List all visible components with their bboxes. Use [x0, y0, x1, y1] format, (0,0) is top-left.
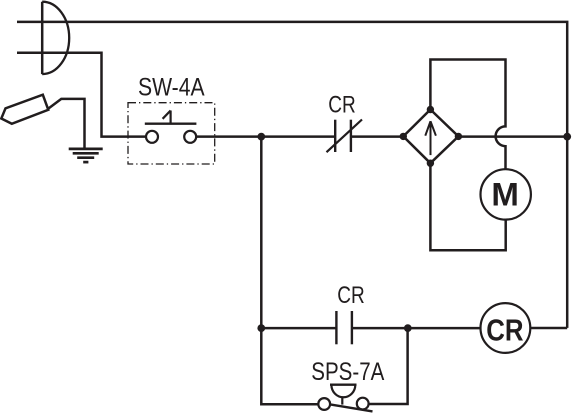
svg-text:CR: CR: [337, 282, 365, 309]
wire: node to relay coil: [408, 327, 481, 330]
rectifier BR1 (diamond with arrow): [400, 106, 463, 167]
node: junction dot on right rail: [563, 133, 571, 141]
relay coil CR circle: [481, 303, 531, 353]
wire: loop from diamond top over to motor with hop over main wire: [430, 60, 505, 170]
node: junction dot before relay coil: [404, 324, 412, 332]
svg-text:M: M: [491, 177, 519, 213]
pressure switch SPS-7A: [318, 385, 372, 412]
svg-text:SW-4A: SW-4A: [138, 73, 205, 101]
plug P1 (AC plug, half-ellipse): [42, 2, 69, 74]
switch SW-4A pushbutton: terminals, lever, actuator mark: [145, 111, 197, 143]
wire: relay coil to right rail: [530, 327, 567, 330]
node: junction dot after switch: [257, 133, 265, 141]
wire: probe cable to ground: [48, 99, 85, 148]
wire: NO contact to junction node: [352, 327, 408, 330]
wire: switch to junction node and on to NC contact: [196, 135, 335, 138]
wire: NC contact to rectifier diamond: [351, 135, 403, 138]
wire: diamond right vertex to right rail: [458, 135, 567, 138]
ground: [69, 149, 103, 162]
svg-text:CR: CR: [328, 92, 356, 119]
wire: from rung node down to pressure switch right terminal: [369, 328, 408, 404]
switch SW-4A dashed enclosure: [128, 103, 215, 164]
wire: motor bottom loop back to diamond bottom: [430, 163, 505, 250]
wire: rung from node to NO contact: [261, 327, 336, 330]
ground probe (test lead): [1, 95, 48, 124]
svg-text:CR: CR: [486, 312, 523, 347]
motor M circle: [481, 169, 531, 219]
wire: top prong from plug to top-right corner and down right side: [17, 22, 567, 328]
node: junction dot on left vertical at relay rung: [257, 324, 265, 332]
contact CR (normally-closed): [327, 120, 363, 153]
contact CR (normally-open): [336, 311, 352, 344]
wire: bottom prong down to switch SW-4A: [17, 53, 146, 137]
wire: left vertical from main node down and along bottom to pressure switch: [261, 137, 318, 405]
svg-text:SPS-7A: SPS-7A: [311, 358, 384, 386]
